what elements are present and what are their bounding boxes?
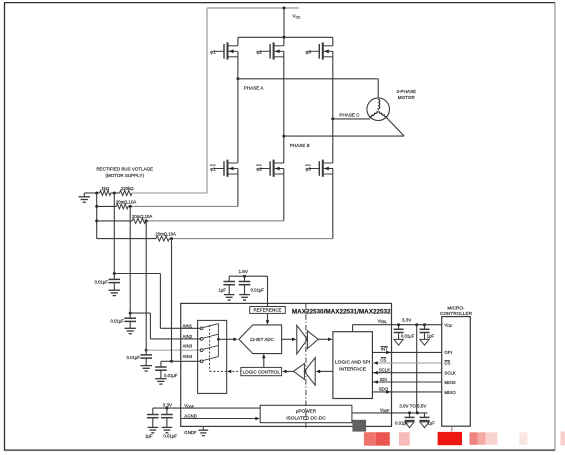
wire divider tap riser	[113, 193, 115, 274]
svg-text:SCLK: SCLK	[444, 371, 456, 376]
wire AIN1 into IC	[160, 327, 201, 329]
capacitor C2 0.01uF	[111, 313, 136, 334]
svg-text:0.01μF: 0.01μF	[395, 420, 409, 425]
capacitor C8 1uF	[420, 325, 435, 346]
buffer U1d reverse isolation stage 2	[294, 364, 305, 380]
svg-text:GNDF: GNDF	[184, 430, 197, 435]
wire ground rail to shunt 3	[97, 238, 156, 240]
svg-text:VDDP: VDDP	[380, 407, 390, 413]
svg-text:0.01μF: 0.01μF	[164, 373, 178, 378]
wire PHASE B	[284, 135, 404, 137]
node C4 junction	[170, 360, 173, 363]
label PHASE B	[290, 143, 310, 148]
svg-text:0.01μF: 0.01μF	[127, 355, 141, 360]
wire 1.8V rail	[229, 275, 267, 277]
svg-text:φ1: φ1	[210, 167, 216, 172]
multiplexer 4-channel input mux	[198, 320, 227, 393]
wire INT to microcontroller	[372, 351, 441, 355]
transistor Q1 (phi1 high-side)	[210, 42, 237, 59]
resistor R5 20mOhm 10A shunt	[156, 232, 177, 241]
wire SPI block to reverse buffer	[316, 370, 333, 374]
wire AIN4 stub to C4	[161, 360, 172, 362]
wire mux output to ADC	[218, 338, 237, 342]
transistor Q2 (phi2 high-side)	[256, 42, 283, 59]
wire shunt3 tap riser	[171, 239, 173, 362]
resistor R2 220kOhm	[120, 186, 135, 195]
wire AGND to DC-DC	[181, 417, 260, 421]
svg-text:INTERFACE: INTERFACE	[339, 366, 366, 372]
pin VDDP	[380, 407, 390, 413]
wire R2 to bus rail	[132, 192, 207, 194]
wire shunt3 to tap	[169, 238, 172, 240]
wire REFERENCE to ADC	[266, 313, 270, 324]
node 1.8V junction	[243, 275, 246, 278]
node divider tap junction	[113, 192, 116, 195]
svg-text:CS: CS	[444, 361, 450, 366]
wire buffer to SPI block	[318, 338, 332, 342]
wire Q5 source down to shunt 2	[148, 169, 284, 221]
node VDDP junction C9	[408, 411, 411, 414]
capacitor C9 0.01uF	[395, 413, 415, 428]
wire Q4 drain up to Phase A	[237, 79, 239, 163]
wire 1.8V to REFERENCE	[267, 276, 269, 306]
buffer U1b forward isolation stage 2	[307, 331, 318, 349]
node shunt1 ground junction	[95, 205, 98, 208]
DC-DC block uPOWER ISOLATED DC-DC	[260, 405, 352, 422]
svg-text:3.3V: 3.3V	[163, 403, 173, 408]
svg-text:SCLK: SCLK	[379, 367, 391, 372]
frame border bottom	[5, 449, 556, 451]
svg-text:AIN4: AIN4	[183, 354, 193, 359]
svg-text:AIN3: AIN3	[183, 344, 193, 349]
wire AIN4 into IC	[172, 360, 202, 362]
pin VDDF	[184, 403, 194, 409]
wire galvanic isolation barrier (dash-dot)	[305, 303, 307, 429]
svg-text:0.01μF: 0.01μF	[401, 333, 415, 338]
wire Q2 drain to bus	[283, 37, 285, 46]
svg-text:REFERENCE: REFERENCE	[253, 308, 281, 313]
pin AIN4	[183, 354, 193, 359]
resistor R3 20mOhm 10A shunt	[116, 200, 137, 209]
svg-text:φ3: φ3	[306, 49, 312, 54]
wire shunt2 to tap	[146, 220, 148, 222]
svg-text:(MOTOR SUPPLY): (MOTOR SUPPLY)	[106, 173, 145, 178]
pin SCLK	[379, 367, 391, 372]
op-amp U1 MAX22530 outline	[181, 303, 392, 426]
pin SDI	[380, 377, 387, 382]
node 3.3V junction C8	[423, 323, 426, 326]
svg-text:SDI: SDI	[380, 377, 387, 382]
pin MISO (microcontroller)	[444, 390, 456, 395]
capacitor C3 0.01uF	[127, 350, 152, 371]
label Vcc	[293, 14, 302, 20]
svg-text:LOGIC AND SPI: LOGIC AND SPI	[335, 359, 370, 365]
wire Q6 drain up to Phase C	[332, 119, 334, 163]
svg-text:MAX22530/MAX22531/MAX22532: MAX22530/MAX22531/MAX22532	[292, 308, 391, 315]
svg-text:0.01μF: 0.01μF	[163, 434, 177, 439]
node 3.3V junction C7	[397, 323, 400, 326]
motor M1 (3-phase)	[367, 98, 390, 121]
label 3.0V TO 5.5V	[399, 404, 426, 409]
svg-text:LOGIC CONTROL: LOGIC CONTROL	[243, 369, 281, 374]
label PHASE A	[244, 86, 265, 91]
wire CS to microcontroller	[372, 361, 441, 365]
wire ground to divider	[84, 192, 99, 194]
logic control block	[241, 367, 282, 375]
svg-text:PHASE A: PHASE A	[244, 86, 265, 91]
wire Q3 drain to bus	[332, 37, 334, 46]
capacitor C1 0.01uF	[95, 274, 121, 296]
wire Q2 source down to Phase B node	[283, 51, 285, 136]
label 3.3V logic supply	[402, 318, 412, 323]
svg-text:φ2: φ2	[256, 167, 262, 172]
node PHASE C junction	[331, 117, 334, 120]
wire VDDP rail	[352, 412, 428, 414]
transistor Q3 (phi3 high-side)	[306, 42, 333, 59]
label 3-PHASE MOTOR	[396, 89, 416, 100]
svg-text:AIN1: AIN1	[183, 323, 193, 328]
node VDDP junction tie	[416, 411, 419, 414]
label 1.8V	[238, 269, 248, 274]
svg-text:RECTIFIED BUS VOTLAGE: RECTIFIED BUS VOTLAGE	[96, 166, 153, 171]
node high-side bus junction	[283, 36, 286, 39]
svg-text:3-PHASE: 3-PHASE	[396, 89, 416, 94]
microcontroller U2 outline	[442, 317, 471, 427]
wire PHASE A drop to motor	[377, 79, 379, 98]
node shunt1 sense tap	[129, 205, 132, 208]
wire SDO to microcontroller	[372, 390, 441, 394]
svg-text:1μF: 1μF	[427, 333, 435, 338]
svg-text:MOSI: MOSI	[444, 380, 455, 385]
wire shunt2 tap riser	[145, 221, 147, 350]
pin INT with overline	[380, 347, 388, 352]
node shunt3 sense tap	[170, 237, 173, 240]
svg-text:1μF: 1μF	[427, 420, 435, 425]
pin AIN1	[183, 323, 193, 328]
wire Q4 source down to shunt 1	[132, 169, 238, 207]
label MAX22530/MAX22531/MAX22532	[292, 308, 391, 315]
wire ADC to isolation buffer	[282, 338, 297, 342]
buffer U1a forward isolation stage 1	[297, 325, 308, 354]
wire PHASE A	[238, 78, 378, 80]
svg-text:MICRO-: MICRO-	[447, 305, 465, 310]
svg-text:μPOWER: μPOWER	[296, 408, 317, 413]
capacitor C7 0.01uF	[394, 325, 415, 346]
wire AIN2 riser	[149, 313, 151, 339]
svg-text:VDD: VDD	[444, 322, 452, 328]
wire Q1 source down to Phase A	[237, 51, 239, 79]
pin GPI (microcontroller)	[444, 350, 452, 355]
wire 3.3V rail to microcontroller	[392, 324, 442, 326]
label MICRO-CONTROLLER	[440, 305, 473, 316]
pin AIN3	[183, 344, 193, 349]
wire C1 junction to AIN1 riser	[114, 273, 160, 275]
svg-text:VDDL: VDDL	[378, 318, 388, 324]
wire AIN3 into IC	[146, 349, 201, 351]
wire shunt1 tap riser	[129, 206, 131, 313]
node C1 junction	[113, 272, 116, 275]
svg-text:AGND: AGND	[184, 413, 197, 418]
frame border right	[554, 3, 556, 451]
watermark red blocks	[364, 432, 565, 446]
svg-text:GPI: GPI	[444, 350, 452, 355]
wire ground rail to shunt 1	[97, 205, 117, 207]
ground main star ground	[79, 193, 91, 202]
svg-text:1μF: 1μF	[145, 434, 153, 439]
svg-text:ISOLATED DC-DC: ISOLATED DC-DC	[286, 416, 326, 421]
svg-text:1.8V: 1.8V	[238, 269, 248, 274]
wire reverse buffer to logic control	[282, 370, 293, 374]
node C3 junction	[145, 349, 148, 352]
capacitor C5 1uF	[219, 276, 236, 300]
wire ground rail to shunt 2	[97, 220, 133, 222]
node VDDF junction	[165, 407, 168, 410]
pin AIN2	[183, 334, 193, 339]
wire C2 junction to AIN2 riser	[130, 312, 150, 314]
node 3.3V junction tie	[415, 323, 418, 326]
svg-text:220kΩ: 220kΩ	[121, 186, 135, 191]
ADC block 12-BIT ADC	[239, 325, 282, 354]
wire PHASE B diagonal to motor	[386, 117, 404, 136]
wire Q1 drain to bus	[237, 37, 239, 46]
wire SCLK to microcontroller	[372, 371, 441, 375]
wire R1 to R2	[111, 192, 120, 194]
svg-text:0.01μF: 0.01μF	[95, 280, 109, 285]
wire shunt ground rail	[96, 193, 98, 239]
SPI block LOGIC AND SPI INTERFACE	[333, 332, 373, 399]
capacitor C4 0.01uF	[155, 361, 178, 384]
svg-text:0.01μF: 0.01μF	[111, 319, 125, 324]
transistor Q6 (phi3-bar low-side)	[305, 160, 333, 177]
svg-text:0.01μF: 0.01μF	[251, 287, 265, 292]
wire high-side drain bus	[238, 36, 333, 38]
pin VDDL	[378, 318, 388, 324]
node C2 junction	[129, 312, 132, 315]
node PHASE A junction	[236, 77, 239, 80]
svg-text:AIN2: AIN2	[183, 334, 193, 339]
wire Q6 source down to shunt 3	[173, 169, 333, 239]
transistor Q4 (phi1-bar low-side)	[210, 160, 238, 177]
svg-text:MISO: MISO	[444, 390, 456, 395]
buffer U1c reverse isolation stage 1	[304, 358, 315, 386]
wire shunt1 to tap	[128, 205, 132, 207]
wire VDDF rail	[153, 407, 260, 409]
wire AIN2 into IC	[150, 338, 201, 340]
watermark gray block	[352, 420, 366, 432]
pin CS with overline	[380, 357, 386, 362]
pin GNDF	[184, 430, 197, 435]
svg-text:20mΩ,10A: 20mΩ,10A	[116, 200, 137, 205]
resistor R1 1kOhm	[100, 186, 111, 195]
ground GNDF	[198, 426, 208, 435]
wire AIN1 riser	[159, 274, 161, 329]
frame border left	[4, 2, 6, 451]
capacitor C11 1uF	[145, 408, 159, 439]
wire rectified-bus left rail (Vcc to divider)	[206, 8, 208, 193]
wire mux control (dashed)	[210, 325, 241, 373]
resistor R4 20mOhm 10A shunt	[132, 214, 153, 224]
svg-text:20mΩ,10A: 20mΩ,10A	[132, 214, 153, 219]
svg-text:φ2: φ2	[256, 49, 262, 54]
transistor Q5 (phi2-bar low-side)	[256, 160, 284, 177]
wire SDI to microcontroller	[372, 380, 441, 384]
svg-text:20mΩ,10A: 20mΩ,10A	[156, 232, 177, 237]
svg-text:1kΩ: 1kΩ	[101, 186, 110, 191]
wire Q5 drain up to Phase B	[283, 136, 285, 163]
frame border top	[5, 2, 556, 4]
wire Q3 source down to Phase C node	[332, 51, 334, 119]
pin MOSI (microcontroller)	[444, 380, 455, 385]
svg-text:CS: CS	[380, 357, 386, 362]
node Vcc junction	[283, 7, 286, 10]
svg-text:3.3V: 3.3V	[402, 318, 412, 323]
node star ground junction	[95, 192, 98, 195]
wire Vcc top bus	[207, 7, 299, 9]
label RECTIFIED BUS VOTLAGE (MOTOR SUPPLY)	[96, 166, 153, 178]
svg-text:φ3: φ3	[306, 167, 312, 172]
capacitor C6 0.01uF	[239, 276, 265, 300]
pin SDO	[379, 387, 389, 392]
wire 3.3V tie to VDDP rail	[416, 325, 418, 413]
pin CS (microcontroller) with overline	[444, 361, 450, 366]
wire PHASE C	[333, 118, 371, 120]
svg-text:PHASE B: PHASE B	[290, 143, 310, 148]
svg-text:CONTROLLER: CONTROLLER	[440, 311, 473, 316]
pin AGND	[184, 413, 197, 418]
capacitor C12 0.01uF	[161, 408, 177, 439]
label 3.3V field supply	[163, 403, 173, 408]
wire Vcc drop to high-side rail	[283, 8, 285, 37]
svg-text:MOTOR: MOTOR	[398, 95, 416, 100]
ground microcontroller stub	[451, 426, 453, 431]
svg-text:3.0V TO 5.5V: 3.0V TO 5.5V	[399, 404, 426, 409]
node PHASE B junction	[282, 135, 285, 138]
svg-text:12-BIT ADC: 12-BIT ADC	[250, 337, 275, 342]
svg-text:φ1: φ1	[210, 49, 216, 54]
label PHASE C	[339, 112, 360, 117]
pin VDD (microcontroller)	[444, 322, 452, 328]
node shunt2 sense tap	[145, 219, 148, 222]
svg-text:PHASE C: PHASE C	[339, 112, 360, 117]
svg-text:VCC: VCC	[293, 14, 302, 20]
wire logic control to ADC	[262, 354, 266, 368]
capacitor C10 1uF	[420, 413, 436, 428]
node shunt2 ground junction	[95, 219, 98, 222]
voltage reference block	[250, 307, 286, 314]
svg-text:1μF: 1μF	[219, 287, 227, 292]
pin SCLK (microcontroller)	[444, 371, 456, 376]
wire VDDL from SPI block	[353, 325, 392, 332]
